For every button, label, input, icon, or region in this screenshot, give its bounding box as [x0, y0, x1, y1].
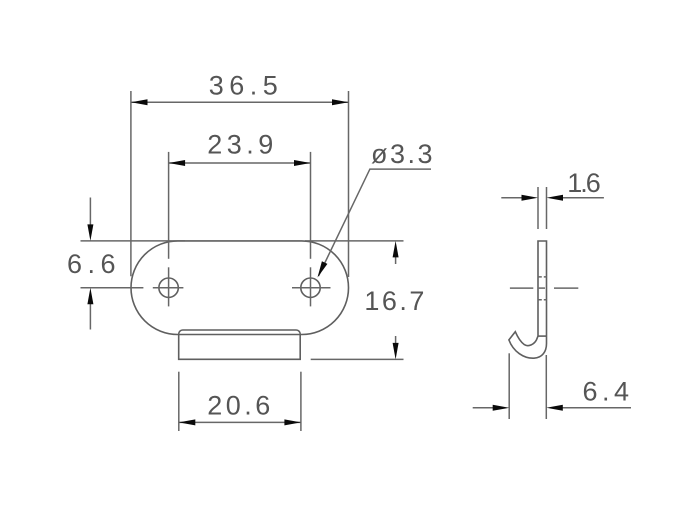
- dimension 6.4: [473, 353, 634, 419]
- svg-text:ø3.3: ø3.3: [371, 139, 435, 169]
- hidden hole lines (side view): [538, 276, 547, 278]
- svg-text:36.5: 36.5: [209, 71, 284, 101]
- dimension 36.5: [131, 71, 349, 278]
- bend line on hook: [538, 335, 547, 337]
- dimension 1.6: [501, 168, 604, 229]
- bottom tab (front view): [179, 330, 301, 359]
- hook profile (side view): [509, 241, 547, 358]
- plate outline (front view stadium body): [131, 241, 349, 335]
- dimension 16.7: [305, 241, 427, 360]
- svg-text:6.4: 6.4: [582, 376, 633, 406]
- hole right: [301, 278, 320, 297]
- center mark right hole: [292, 267, 331, 306]
- svg-text:23.9: 23.9: [207, 130, 278, 160]
- leader and label ø3.3 (hole diameter): [318, 139, 436, 278]
- svg-text:16.7: 16.7: [364, 286, 427, 316]
- svg-text:1.6: 1.6: [567, 168, 600, 198]
- dimension 23.9: [169, 130, 311, 259]
- svg-text:6.6: 6.6: [67, 249, 121, 279]
- svg-text:20.6: 20.6: [207, 391, 274, 421]
- dimension 20.6: [179, 372, 301, 431]
- center line (side view): [510, 287, 578, 289]
- center mark left hole: [153, 267, 184, 306]
- dimension 6.6: [67, 198, 185, 330]
- hole left: [159, 278, 178, 297]
